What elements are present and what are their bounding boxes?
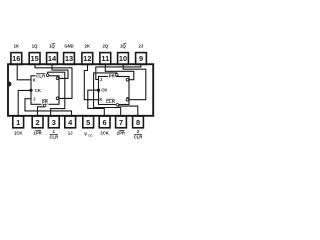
wire pin16 1K to U1a K input [17, 65, 31, 80]
svg-text:14: 14 [48, 54, 57, 63]
pin 9 box (2J) [136, 53, 147, 65]
U1a Q output circle (bottom) [56, 97, 59, 100]
pin 5 box [83, 116, 94, 128]
svg-text:9: 9 [139, 54, 143, 63]
svg-text:3: 3 [52, 118, 56, 127]
svg-text:6: 6 [103, 118, 107, 127]
U1b CLR bubble [116, 104, 119, 107]
pin 11 box (2Q) [100, 53, 111, 65]
svg-text:2Q: 2Q [120, 44, 126, 49]
U1b PR label [108, 74, 116, 79]
svg-text:16: 16 [12, 54, 20, 63]
U1a clock triangle [29, 89, 32, 92]
svg-text:2J: 2J [139, 44, 144, 49]
svg-text:1K: 1K [14, 44, 19, 49]
svg-text:7: 7 [119, 118, 123, 127]
wire pin8 2CLR to U1b CLR bubble [117, 106, 137, 115]
wire pin10 2Qbar to U1b Qbar output [123, 65, 146, 100]
pin 7 box [116, 116, 127, 128]
U1b Qbar output circle (bottom) [126, 98, 129, 101]
svg-text:12: 12 [83, 54, 91, 63]
svg-text:5: 5 [86, 118, 90, 127]
IC body outline [8, 64, 153, 116]
svg-text:1Q: 1Q [32, 44, 38, 49]
svg-text:15: 15 [30, 54, 38, 63]
U1a Qbar output circle (top) [56, 77, 59, 80]
svg-text:8: 8 [136, 118, 140, 127]
pin 6 box [99, 116, 110, 128]
svg-text:2K: 2K [85, 44, 90, 49]
wire pin4 1J to U1a J input [25, 99, 72, 116]
pin 12 box (2K) [82, 53, 93, 65]
U1b CLR label [105, 99, 116, 104]
svg-text:13: 13 [65, 54, 73, 63]
svg-text:2Q: 2Q [103, 44, 109, 49]
svg-text:CLR: CLR [106, 99, 115, 104]
wire pin9 2J to U1b J input [96, 65, 141, 80]
U1b PR bubble [116, 74, 119, 77]
wire pin14 1Qbar to U1a Qbar output (top) [52, 65, 68, 78]
pin 10 box (2Qbar) [118, 53, 129, 65]
svg-text:K: K [33, 78, 36, 83]
svg-text:2PR: 2PR [117, 131, 125, 136]
pin 1 box [13, 116, 24, 128]
svg-text:1Q: 1Q [49, 44, 55, 49]
svg-text:1PR: 1PR [34, 131, 42, 136]
wire pin7 2PR around to U1b PR bubble [94, 73, 121, 116]
pin 13 box (GND) [64, 53, 75, 65]
svg-text:CLR: CLR [134, 135, 143, 140]
svg-text:1J: 1J [68, 131, 73, 136]
flip-flop U1a box [31, 76, 59, 105]
svg-text:PR: PR [109, 74, 115, 79]
svg-text:10: 10 [119, 54, 127, 63]
svg-text:GND: GND [64, 44, 73, 49]
svg-text:1CK: 1CK [14, 131, 22, 136]
svg-text:2CK: 2CK [100, 131, 108, 136]
pin 14 box (1Qbar) [47, 53, 58, 65]
pin 3 box [48, 116, 59, 128]
pin 4 box [65, 116, 76, 128]
svg-text:1: 1 [16, 118, 20, 127]
svg-text:V: V [84, 132, 87, 137]
U1a PR label [41, 100, 49, 105]
pin 16 box (1K) [11, 53, 22, 65]
wire pin11 2Q to U1b Q output [105, 65, 134, 80]
pin-1 orientation notch [9, 81, 12, 86]
U1a CLR label [36, 74, 47, 79]
svg-text:2: 2 [36, 118, 40, 127]
pin 15 box (1Q) [29, 53, 40, 65]
pin 8 box [133, 116, 144, 128]
svg-text:11: 11 [101, 54, 109, 63]
svg-text:K: K [99, 97, 102, 102]
U1b Q output circle (top) [126, 78, 129, 81]
wire pin6 2CK to U1b CK input [88, 90, 105, 115]
svg-text:CLR: CLR [49, 135, 58, 140]
wire pin3 1CLR around to U1a CLR bubble [48, 72, 65, 116]
U1b clock triangle [97, 89, 100, 92]
flip-flop U1b box [99, 77, 130, 105]
wire pin12 2K to U1b K input [84, 65, 98, 100]
svg-text:CK: CK [101, 88, 107, 93]
pin 2 box [32, 116, 43, 128]
wire pin15 1Q to U1a Q output (bottom) [35, 65, 72, 98]
wire pin2 1PR to U1a PR bubble [38, 107, 45, 116]
wire pin1 1CK to U1a CK input [18, 90, 31, 115]
U1a CLR bubble [46, 74, 49, 77]
svg-text:CLR: CLR [36, 73, 45, 78]
U1a PR bubble [43, 104, 46, 107]
svg-text:CK: CK [35, 88, 41, 93]
